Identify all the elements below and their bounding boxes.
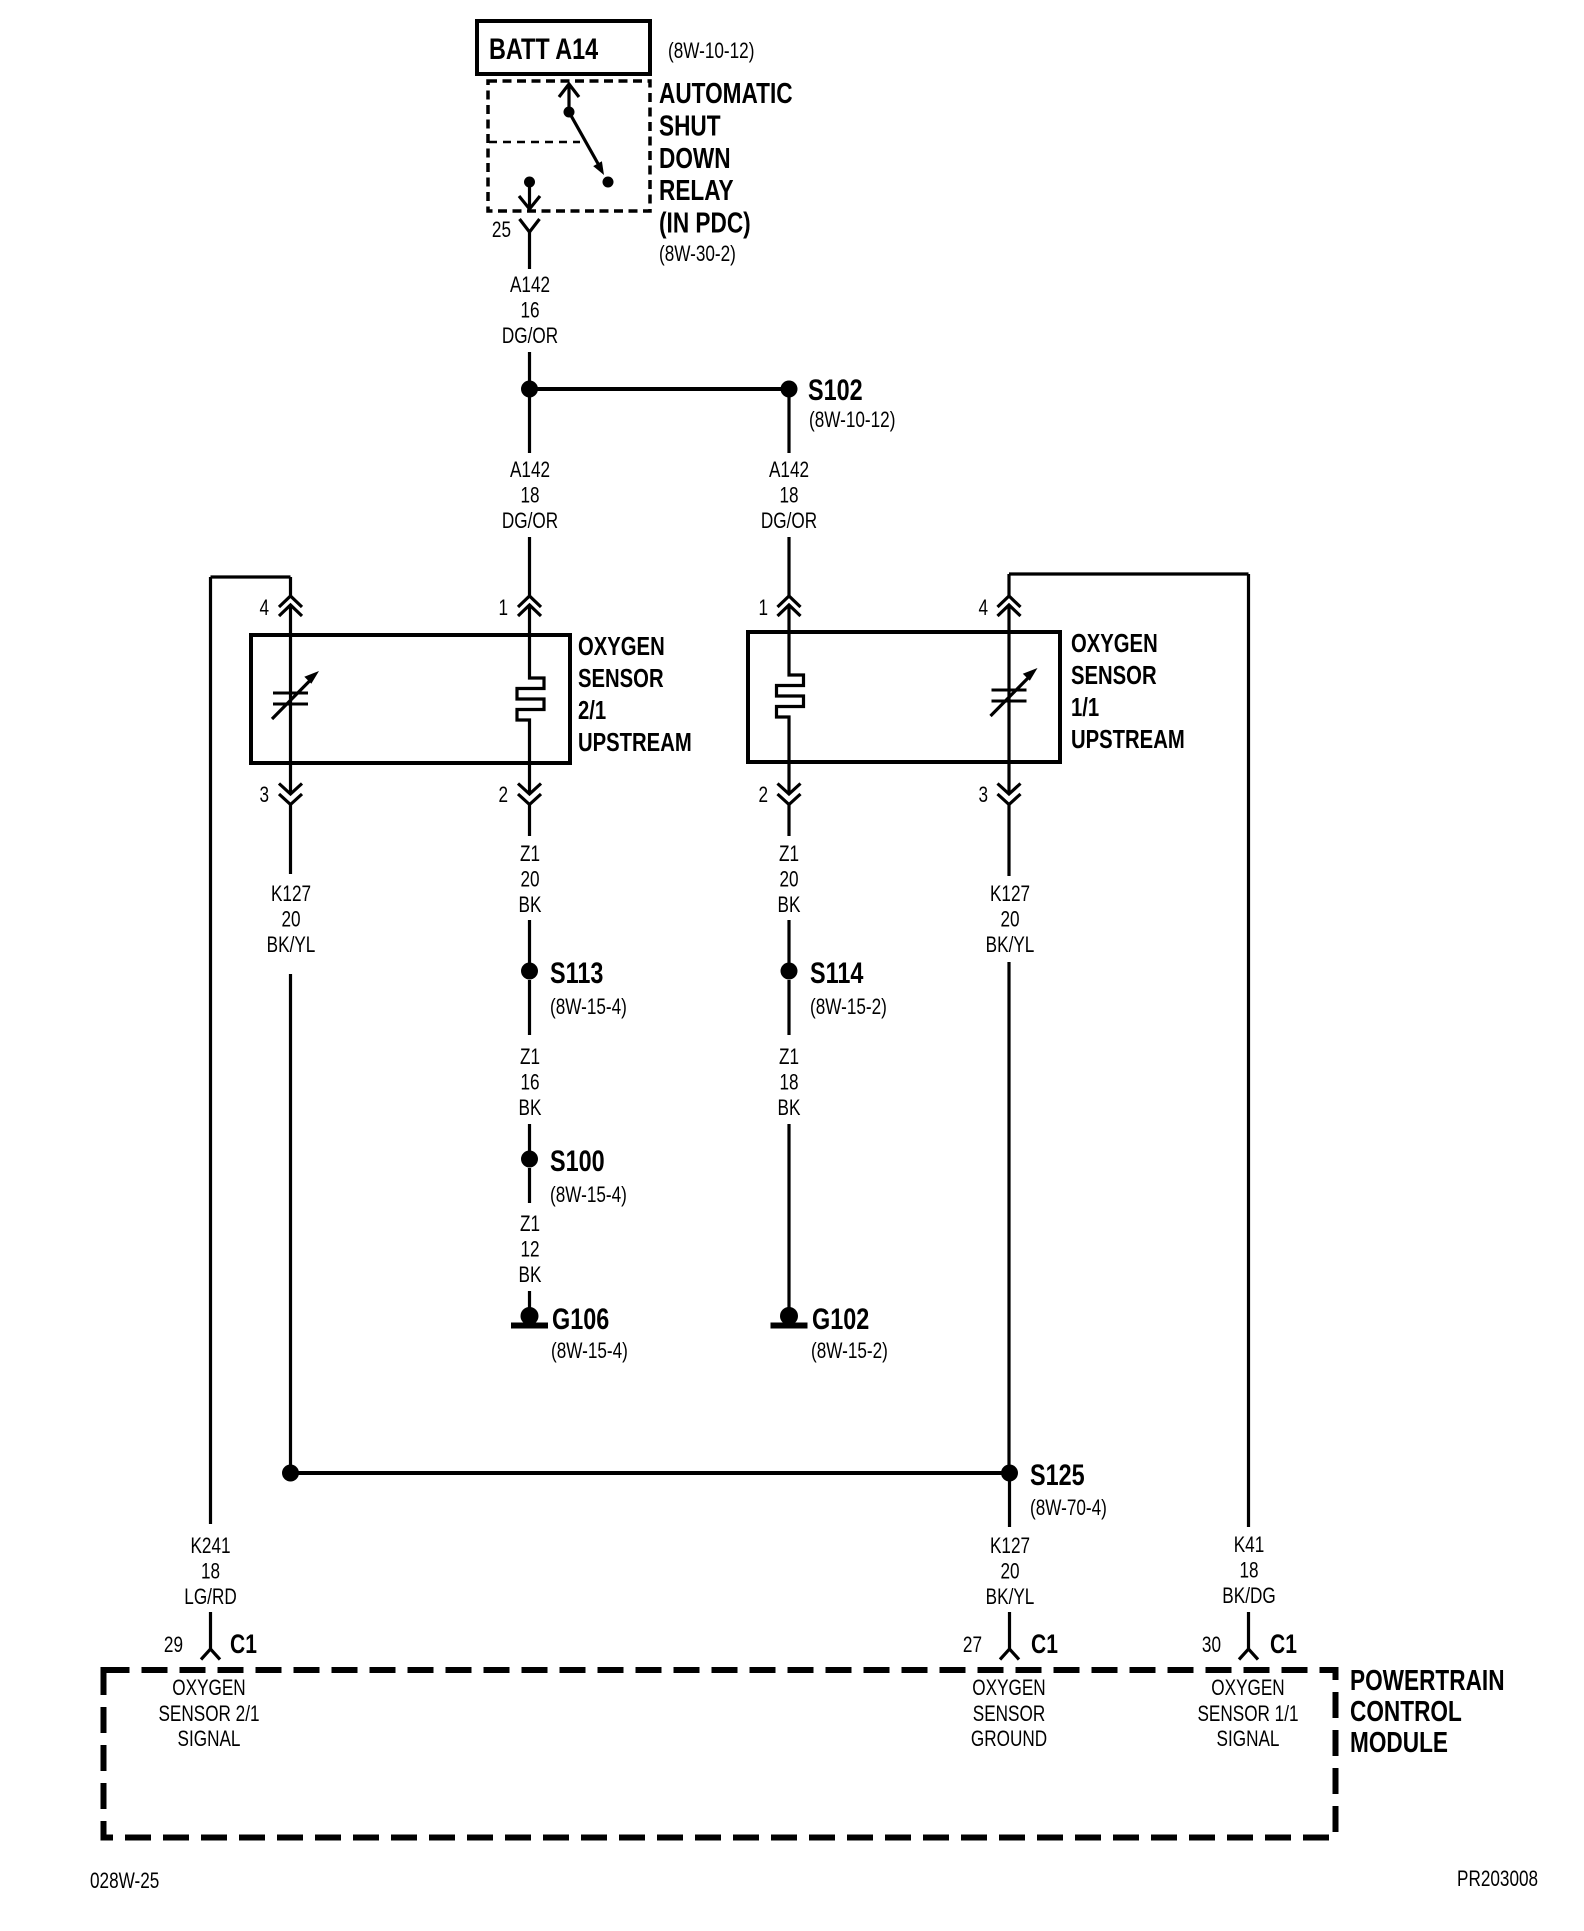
svg-text:20: 20 <box>281 908 300 933</box>
svg-text:20: 20 <box>779 868 798 893</box>
svg-text:3: 3 <box>978 783 988 808</box>
wire K127 20 BK/YL (sensor 1/1 pin 3) <box>1007 811 1010 876</box>
svg-text:028W-25: 028W-25 <box>90 1869 159 1894</box>
sensing element wire through box <box>289 635 292 763</box>
svg-text:(8W-10-12): (8W-10-12) <box>668 39 754 64</box>
svg-text:BK/YL: BK/YL <box>986 1585 1035 1610</box>
wire Z1 20 BK <box>787 811 790 836</box>
wire A142 18 DG/OR left leg <box>528 397 531 453</box>
svg-text:GROUND: GROUND <box>971 1727 1047 1752</box>
svg-text:(8W-15-2): (8W-15-2) <box>811 1339 888 1364</box>
svg-text:1/1: 1/1 <box>1071 693 1099 722</box>
svg-text:(8W-30-2): (8W-30-2) <box>659 242 736 267</box>
svg-text:BK/YL: BK/YL <box>986 933 1035 958</box>
svg-text:(8W-15-2): (8W-15-2) <box>810 995 887 1020</box>
pin 29 connector <box>209 1612 212 1649</box>
svg-text:27: 27 <box>963 1633 982 1658</box>
svg-text:MODULE: MODULE <box>1350 1725 1448 1758</box>
splice S125 left junction dot <box>282 1465 299 1482</box>
svg-text:30: 30 <box>1202 1633 1221 1658</box>
relay pin to BATT: upward arrow <box>567 84 570 112</box>
heater element symbol <box>517 635 544 763</box>
variable sensing element symbol <box>273 692 308 695</box>
wire K127 20 BK/YL (S125 to PCM) <box>1008 1481 1011 1527</box>
svg-text:Z1: Z1 <box>520 1045 540 1070</box>
svg-text:20: 20 <box>1000 908 1019 933</box>
wire A142 16 DG/OR (relay to splice) <box>528 249 531 269</box>
variable sensing element symbol <box>992 689 1027 692</box>
svg-text:S100: S100 <box>550 1144 605 1177</box>
wire K41 top loop (right) <box>1009 572 1249 575</box>
svg-text:A142: A142 <box>769 458 809 483</box>
svg-text:BATT A14: BATT A14 <box>489 32 598 65</box>
wire K241 top loop (left) <box>211 575 291 578</box>
svg-text:DG/OR: DG/OR <box>761 509 817 534</box>
svg-text:OXYGEN: OXYGEN <box>1071 629 1158 658</box>
svg-text:K41: K41 <box>1234 1533 1265 1558</box>
svg-text:BK: BK <box>778 893 801 918</box>
splice S100 <box>521 1151 538 1168</box>
svg-text:CONTROL: CONTROL <box>1350 1694 1462 1727</box>
svg-text:20: 20 <box>1000 1560 1019 1585</box>
heater element symbol <box>777 632 804 762</box>
svg-text:OXYGEN: OXYGEN <box>172 1676 245 1701</box>
relay coil divider (dashed) <box>489 141 580 144</box>
svg-text:3: 3 <box>259 783 269 808</box>
svg-text:AUTOMATIC: AUTOMATIC <box>659 76 793 109</box>
svg-text:18: 18 <box>201 1560 220 1585</box>
svg-text:29: 29 <box>164 1633 183 1658</box>
svg-text:C1: C1 <box>230 1630 257 1660</box>
wire Z1 12 BK <box>528 1168 531 1203</box>
svg-text:DG/OR: DG/OR <box>502 324 558 349</box>
svg-text:(8W-15-4): (8W-15-4) <box>550 995 627 1020</box>
svg-text:18: 18 <box>779 484 798 509</box>
sensing element wire through box <box>1007 632 1010 762</box>
svg-text:K127: K127 <box>990 882 1030 907</box>
wire S102 tie <box>530 387 790 391</box>
svg-text:UPSTREAM: UPSTREAM <box>578 728 692 757</box>
svg-text:S114: S114 <box>810 956 863 989</box>
svg-text:SIGNAL: SIGNAL <box>1217 1727 1280 1752</box>
svg-text:OXYGEN: OXYGEN <box>1211 1676 1284 1701</box>
relay output contact dot <box>524 177 535 188</box>
svg-text:25: 25 <box>492 218 511 243</box>
svg-text:1: 1 <box>498 596 508 621</box>
svg-text:K127: K127 <box>990 1534 1030 1559</box>
svg-text:Z1: Z1 <box>520 1212 540 1237</box>
svg-text:BK: BK <box>519 893 542 918</box>
svg-text:12: 12 <box>520 1238 539 1263</box>
wire K41 18 BK/DG <box>1247 574 1250 1527</box>
svg-text:16: 16 <box>520 299 539 324</box>
svg-text:(8W-15-4): (8W-15-4) <box>550 1183 627 1208</box>
svg-text:A142: A142 <box>510 273 550 298</box>
wire Z1 20 BK <box>528 811 531 836</box>
pin 27 connector <box>1008 1612 1011 1649</box>
svg-text:18: 18 <box>1239 1559 1258 1584</box>
svg-text:BK: BK <box>778 1096 801 1121</box>
svg-text:SIGNAL: SIGNAL <box>178 1727 241 1752</box>
splice S125 dot <box>1001 1465 1018 1482</box>
svg-text:(8W-15-4): (8W-15-4) <box>551 1339 628 1364</box>
svg-text:(IN PDC): (IN PDC) <box>659 206 751 239</box>
wire Z1 16 BK <box>528 980 531 1035</box>
svg-text:Z1: Z1 <box>779 842 799 867</box>
wire K127 20 BK/YL (sensor 2/1 pin 3) <box>289 811 292 874</box>
svg-text:G102: G102 <box>812 1302 869 1335</box>
svg-text:A142: A142 <box>510 458 550 483</box>
ground G106 <box>521 1307 539 1325</box>
svg-text:16: 16 <box>520 1071 539 1096</box>
svg-text:SENSOR: SENSOR <box>973 1702 1045 1727</box>
svg-text:(8W-70-4): (8W-70-4) <box>1030 1496 1107 1521</box>
powertrain control module dashed box <box>104 1670 1336 1838</box>
splice S102 left junction dot <box>521 381 538 398</box>
svg-text:18: 18 <box>520 484 539 509</box>
pin 30 connector <box>1247 1612 1250 1649</box>
svg-text:UPSTREAM: UPSTREAM <box>1071 725 1185 754</box>
svg-text:2: 2 <box>758 783 768 808</box>
svg-text:BK: BK <box>519 1263 542 1288</box>
svg-text:Z1: Z1 <box>779 1045 799 1070</box>
oxygen sensor 1/1 upstream box <box>748 632 1060 762</box>
splice S113 <box>521 963 538 980</box>
svg-text:SENSOR 1/1: SENSOR 1/1 <box>1197 1702 1298 1727</box>
wire Z1 18 BK <box>787 980 790 1035</box>
splice S102 dot <box>781 381 798 398</box>
relay common contact dot <box>564 107 575 118</box>
svg-text:K127: K127 <box>271 882 311 907</box>
svg-text:C1: C1 <box>1270 1630 1297 1660</box>
svg-text:K241: K241 <box>190 1534 230 1559</box>
svg-text:BK/YL: BK/YL <box>267 933 316 958</box>
svg-text:18: 18 <box>779 1071 798 1096</box>
svg-text:S113: S113 <box>550 956 603 989</box>
wire A142 18 DG/OR right leg <box>787 397 790 453</box>
oxygen sensor 2/1 upstream box <box>251 635 570 763</box>
svg-text:1: 1 <box>758 596 768 621</box>
relay output arrow to pin 25 <box>528 182 531 208</box>
svg-text:2/1: 2/1 <box>578 696 606 725</box>
svg-text:SENSOR: SENSOR <box>578 664 664 693</box>
svg-text:S125: S125 <box>1030 1458 1085 1491</box>
svg-text:BK/DG: BK/DG <box>1222 1584 1275 1609</box>
svg-text:RELAY: RELAY <box>659 173 734 206</box>
svg-text:4: 4 <box>259 596 269 621</box>
wire S125 tie <box>291 1471 1010 1475</box>
svg-text:LG/RD: LG/RD <box>184 1585 236 1610</box>
splice S114 <box>781 963 798 980</box>
svg-text:POWERTRAIN: POWERTRAIN <box>1350 1663 1505 1696</box>
svg-text:20: 20 <box>520 868 539 893</box>
wire <box>528 352 531 382</box>
relay N.O. contact dot <box>603 177 614 188</box>
svg-text:G106: G106 <box>552 1302 609 1335</box>
wire K241 18 LG/RD <box>209 577 212 1524</box>
fuse box BATT A14 <box>477 21 650 74</box>
svg-text:SENSOR 2/1: SENSOR 2/1 <box>158 1702 259 1727</box>
svg-text:S102: S102 <box>808 373 863 406</box>
svg-text:BK: BK <box>519 1096 542 1121</box>
svg-text:(8W-10-12): (8W-10-12) <box>809 408 895 433</box>
svg-text:SENSOR: SENSOR <box>1071 661 1157 690</box>
svg-text:PR203008: PR203008 <box>1457 1867 1538 1892</box>
svg-text:C1: C1 <box>1031 1630 1058 1660</box>
svg-text:DOWN: DOWN <box>659 141 731 174</box>
relay K1 automatic shut down relay dashed outline <box>488 81 650 211</box>
svg-text:OXYGEN: OXYGEN <box>972 1676 1045 1701</box>
relay switch blade with arrowhead <box>569 112 601 169</box>
ground G102 <box>780 1307 798 1325</box>
svg-text:4: 4 <box>978 596 988 621</box>
pin 25 female connector <box>520 219 540 232</box>
svg-text:DG/OR: DG/OR <box>502 509 558 534</box>
svg-text:Z1: Z1 <box>520 842 540 867</box>
svg-text:SHUT: SHUT <box>659 109 721 142</box>
svg-text:OXYGEN: OXYGEN <box>578 632 665 661</box>
svg-text:2: 2 <box>498 783 508 808</box>
